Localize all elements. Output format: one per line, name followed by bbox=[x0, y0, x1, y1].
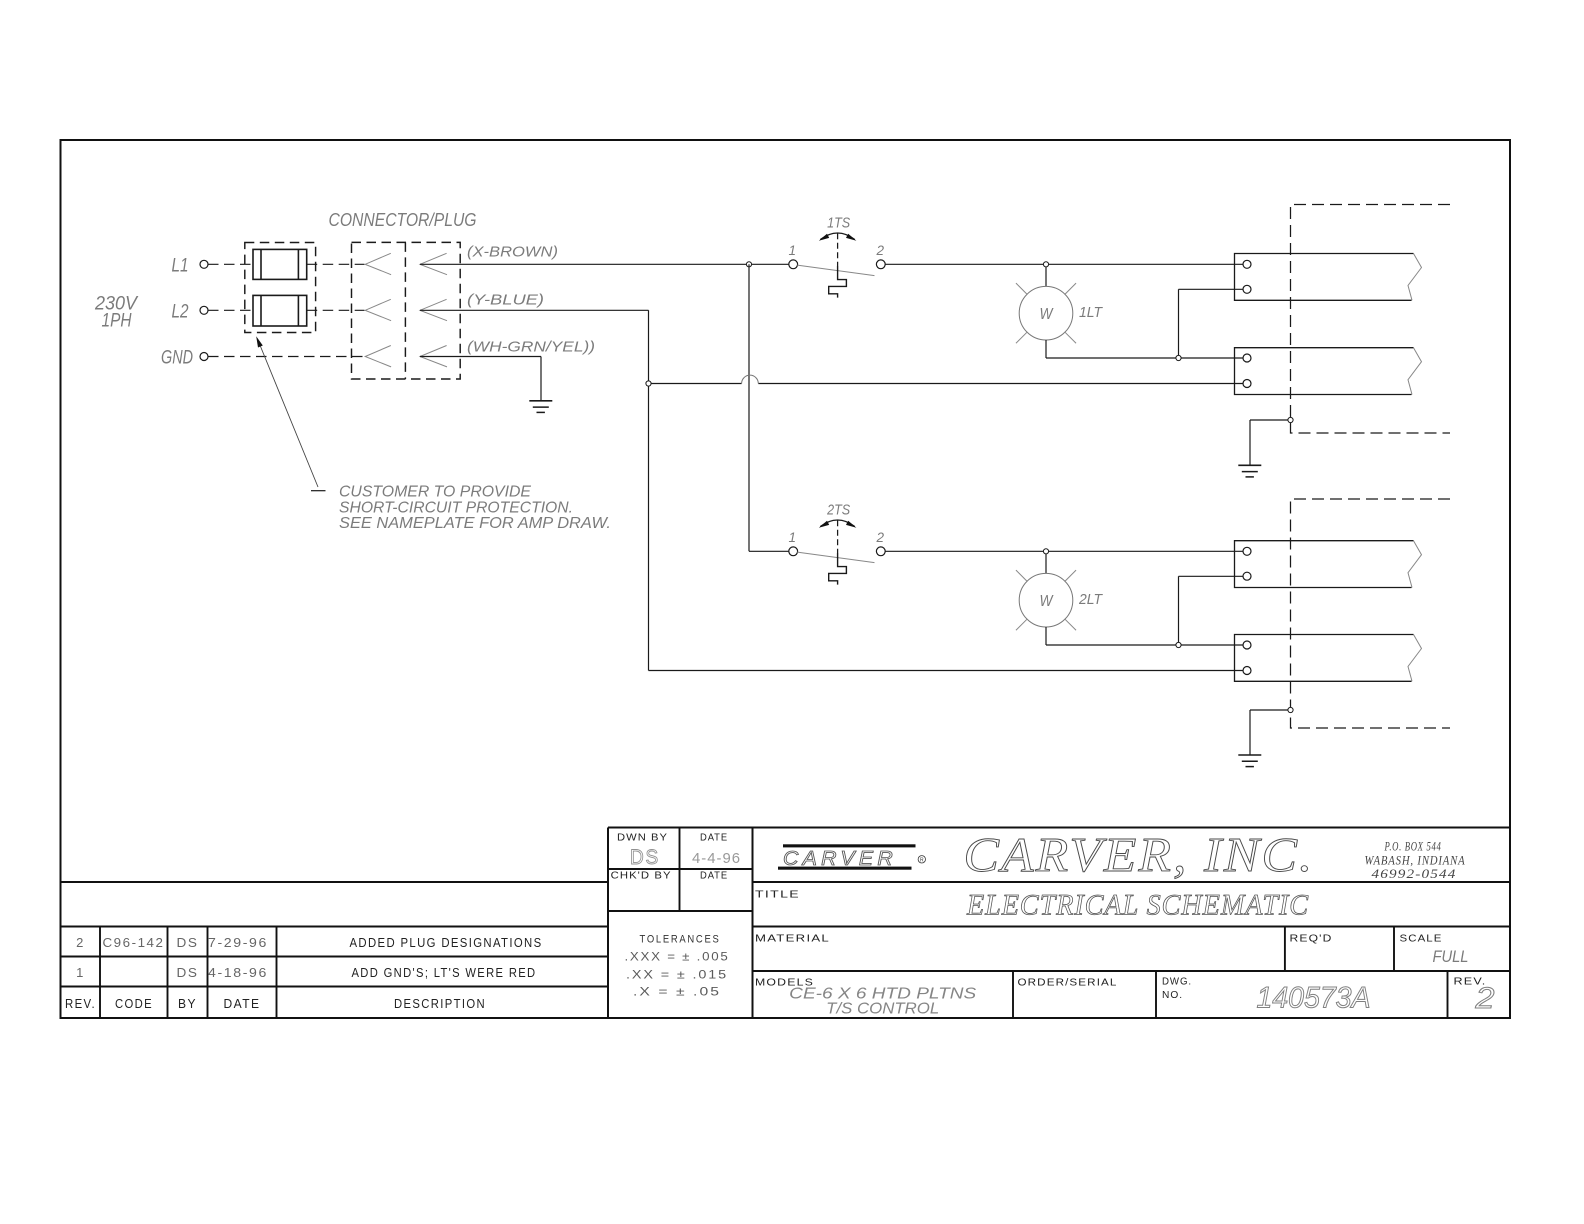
svg-text:L2: L2 bbox=[172, 302, 189, 323]
svg-text:(X-BROWN): (X-BROWN) bbox=[467, 244, 558, 261]
svg-text:46992-0544: 46992-0544 bbox=[1372, 866, 1457, 881]
svg-text:2: 2 bbox=[1474, 982, 1494, 1015]
svg-text:DWG.: DWG. bbox=[1162, 976, 1192, 988]
svg-text:BY: BY bbox=[178, 997, 197, 1011]
svg-text:4-4-96: 4-4-96 bbox=[692, 850, 741, 867]
svg-text:(WH-GRN/YEL)): (WH-GRN/YEL)) bbox=[467, 339, 595, 356]
svg-text:DESCRIPTION: DESCRIPTION bbox=[394, 997, 486, 1011]
svg-text:TOLERANCES: TOLERANCES bbox=[640, 934, 721, 946]
svg-text:SHORT-CIRCUIT PROTECTION.: SHORT-CIRCUIT PROTECTION. bbox=[339, 499, 573, 516]
svg-text:L1: L1 bbox=[172, 256, 189, 277]
svg-text:DATE: DATE bbox=[700, 870, 728, 882]
svg-text:CHK'D BY: CHK'D BY bbox=[611, 870, 672, 882]
svg-text:W: W bbox=[1040, 306, 1055, 323]
svg-text:2: 2 bbox=[76, 935, 85, 950]
svg-text:ORDER/SERIAL: ORDER/SERIAL bbox=[1018, 977, 1118, 989]
svg-text:FULL: FULL bbox=[1433, 947, 1469, 966]
svg-text:CUSTOMER TO PROVIDE: CUSTOMER TO PROVIDE bbox=[339, 484, 532, 501]
svg-text:SEE NAMEPLATE FOR AMP DRAW.: SEE NAMEPLATE FOR AMP DRAW. bbox=[339, 515, 611, 532]
svg-text:DATE: DATE bbox=[224, 997, 261, 1011]
svg-text:4-18-96: 4-18-96 bbox=[208, 965, 268, 980]
svg-text:2: 2 bbox=[876, 530, 885, 545]
svg-text:1: 1 bbox=[76, 965, 85, 980]
svg-text:CARVER, INC.: CARVER, INC. bbox=[964, 827, 1315, 882]
svg-text:DS: DS bbox=[177, 965, 199, 980]
svg-text:REQ'D: REQ'D bbox=[1290, 933, 1333, 945]
svg-text:ADD GND'S; LT'S WERE RED: ADD GND'S; LT'S WERE RED bbox=[352, 966, 537, 980]
svg-text:P.O. BOX 544: P.O. BOX 544 bbox=[1384, 839, 1442, 854]
svg-text:CARVER: CARVER bbox=[783, 848, 897, 870]
svg-text:DWN BY: DWN BY bbox=[617, 832, 668, 844]
svg-text:CODE: CODE bbox=[115, 997, 153, 1011]
svg-text:140573A: 140573A bbox=[1257, 982, 1371, 1015]
svg-text:TITLE: TITLE bbox=[755, 889, 800, 901]
svg-text:W: W bbox=[1040, 593, 1055, 610]
svg-text:.XX = ± .015: .XX = ± .015 bbox=[626, 970, 728, 982]
svg-text:ADDED PLUG DESIGNATIONS: ADDED PLUG DESIGNATIONS bbox=[350, 936, 543, 950]
svg-text:CONNECTOR/PLUG: CONNECTOR/PLUG bbox=[329, 210, 477, 230]
svg-text:T/S CONTROL: T/S CONTROL bbox=[826, 1001, 939, 1018]
svg-text:DS: DS bbox=[630, 846, 660, 869]
svg-text:(Y-BLUE): (Y-BLUE) bbox=[467, 292, 544, 309]
svg-text:REV.: REV. bbox=[65, 997, 96, 1011]
svg-text:2TS: 2TS bbox=[826, 502, 850, 518]
svg-text:DATE: DATE bbox=[700, 832, 728, 844]
svg-text:1: 1 bbox=[788, 530, 796, 545]
svg-text:1PH: 1PH bbox=[102, 311, 132, 332]
svg-text:1LT: 1LT bbox=[1079, 304, 1104, 321]
svg-text:1: 1 bbox=[788, 243, 796, 258]
svg-text:2: 2 bbox=[876, 243, 885, 258]
svg-text:7-29-96: 7-29-96 bbox=[208, 935, 268, 950]
svg-text:DS: DS bbox=[177, 935, 199, 950]
svg-text:GND: GND bbox=[161, 348, 193, 369]
svg-text:SCALE: SCALE bbox=[1400, 933, 1443, 945]
svg-text:2LT: 2LT bbox=[1078, 591, 1104, 608]
svg-text:C96-142: C96-142 bbox=[103, 935, 165, 950]
svg-text:.XXX = ± .005: .XXX = ± .005 bbox=[625, 952, 730, 964]
svg-text:ELECTRICAL SCHEMATIC: ELECTRICAL SCHEMATIC bbox=[966, 889, 1309, 922]
svg-text:1TS: 1TS bbox=[827, 215, 850, 231]
svg-text:MATERIAL: MATERIAL bbox=[755, 933, 830, 945]
svg-text:.X = ± .05: .X = ± .05 bbox=[633, 987, 721, 999]
svg-text:NO.: NO. bbox=[1162, 989, 1183, 1001]
svg-text:R: R bbox=[920, 858, 924, 864]
